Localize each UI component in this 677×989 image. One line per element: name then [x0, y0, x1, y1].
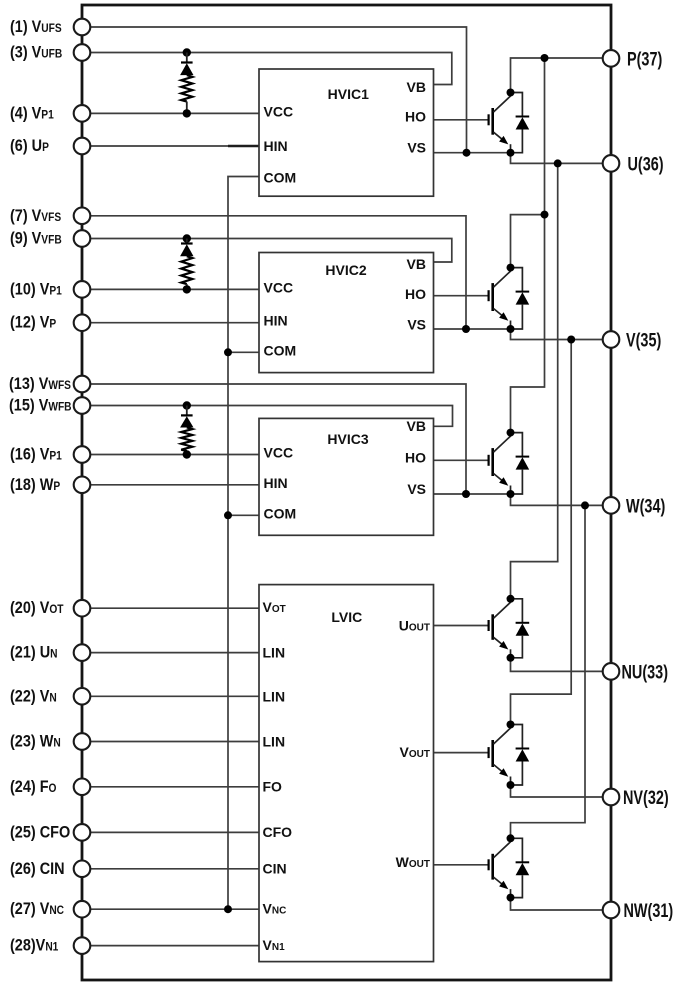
svg-text:HVIC2: HVIC2 [325, 262, 366, 278]
svg-text:HO: HO [405, 286, 426, 302]
wire Q3 emitter to pin W(34) [511, 494, 603, 505]
wire net VP pin 12 to HVIC2 HIN [90, 322, 259, 324]
wire net VVFS pin 7 to V-phase VS node [90, 216, 466, 329]
junction COM bus / VNC net [224, 905, 232, 913]
node dot on lower net (DW/RW W-phase) [183, 450, 191, 458]
wire net VUFS from pin 1 to U-phase VS node [90, 27, 466, 153]
pin 35 V(35) terminal circle [603, 331, 620, 348]
svg-text:NU(33): NU(33) [622, 662, 669, 683]
svg-text:(18) WP: (18) WP [10, 476, 61, 494]
junction U line / U bus [554, 159, 562, 167]
svg-text:CFO: CFO [263, 824, 293, 840]
pin 15 VWFB terminal circle [74, 397, 91, 414]
wire net VP1 pin 4 to HVIC1 VCC [90, 112, 259, 114]
svg-text:LIN: LIN [263, 734, 286, 750]
pin 24 FO terminal circle [74, 779, 91, 796]
pin 3 VUFB terminal circle [74, 44, 91, 61]
pin 27 VNC terminal circle [74, 901, 91, 918]
svg-text:HIN: HIN [264, 475, 288, 491]
emitter node dot of Q1 (U high-side) [507, 149, 515, 157]
pin 26 CIN terminal circle [74, 861, 91, 878]
wire net CIN pin 26 to LVIC [90, 868, 259, 870]
wire net VP1 pin 10 to HVIC2 VCC [90, 288, 259, 290]
wire Q5 emitter to pin NV(32) [511, 785, 603, 797]
pin 6 UP terminal circle [74, 138, 91, 155]
pin 13 VWFS terminal circle [74, 376, 91, 393]
freewheel diode of Q6 (W low-side) [511, 838, 530, 897]
pin 10 VP1 terminal circle [74, 281, 91, 298]
emitter node dot of Q2 (V high-side) [507, 325, 515, 333]
transistor Q6 (W low-side) IGBT [489, 842, 511, 898]
svg-text:VS: VS [407, 316, 426, 332]
pin 23 WN terminal circle [74, 733, 91, 750]
wire net VWFB pin 15 to HVIC3 VB [90, 406, 452, 427]
pin 37 P(37) terminal circle [603, 50, 620, 67]
wire net WN pin 23 to LVIC LIN [90, 741, 259, 743]
svg-text:VB: VB [407, 418, 426, 434]
pin 16 VP1 terminal circle [74, 446, 91, 463]
wire net VP1 pin 16 to HVIC3 VCC [90, 454, 259, 456]
IC HVIC3 box [259, 418, 434, 535]
transistor Q1 (U high-side) IGBT [489, 96, 511, 153]
svg-text:(25) CFO: (25) CFO [10, 823, 70, 841]
pin 12 VP terminal circle [74, 314, 91, 331]
wire net VNC pin 27 to LVIC [90, 908, 259, 910]
collector node dot of Q3 (W high-side) [507, 429, 515, 437]
pin 31 NW(31) terminal circle [603, 902, 620, 919]
svg-text:VB: VB [407, 79, 426, 95]
svg-text:(26) CIN: (26) CIN [10, 860, 65, 878]
svg-text:P(37): P(37) [627, 49, 662, 70]
wire P line to pin P(37) and Q1 collector [511, 58, 603, 93]
wire net VUFB from pin 3 to HVIC1 VB [90, 53, 452, 85]
freewheel diode of Q5 (V low-side) [511, 725, 530, 786]
junction P line / P bus [541, 54, 549, 62]
svg-text:COM: COM [264, 505, 297, 521]
svg-text:FO: FO [263, 778, 283, 794]
svg-text:HIN: HIN [264, 313, 288, 329]
node dot on upper net (DW/RW W-phase) [183, 401, 191, 409]
junction VUFS / U emitter line [463, 149, 471, 157]
pin 22 VN terminal circle [74, 688, 91, 705]
pin 34 W(34) terminal circle [603, 497, 620, 514]
collector node dot of Q6 (W low-side) [507, 834, 515, 842]
wire Q6 emitter to pin NW(31) [511, 898, 603, 910]
node dot on upper net (DV/RV V-phase) [183, 234, 191, 242]
pin 20 VOT terminal circle [74, 600, 91, 617]
wire P bus down to Q3 collector [511, 58, 545, 433]
wire net VN pin 22 to LVIC LIN [90, 695, 259, 697]
svg-text:(23) WN: (23) WN [10, 732, 61, 750]
collector node dot of Q5 (V low-side) [507, 721, 515, 729]
pin 4 VP1 terminal circle [74, 105, 91, 122]
junction V line / V bus [567, 336, 575, 344]
transistor Q4 (U low-side) IGBT [489, 602, 511, 658]
bootstrap resistor DU/RU U-phase [181, 75, 192, 101]
wire net UP pin 6 to HVIC1 HIN [90, 145, 259, 147]
junction COM bus / HVIC2 COM [224, 348, 232, 356]
svg-text:V(35): V(35) [626, 330, 661, 351]
pin 9 VVFB terminal circle [74, 230, 91, 247]
svg-text:LVIC: LVIC [331, 609, 362, 625]
bootstrap diode DW/RW W-phase [180, 406, 193, 428]
svg-text:NV(32): NV(32) [623, 787, 669, 808]
wire Q2 emitter to pin V(35) [511, 329, 603, 340]
pin 28 VN1 terminal circle [74, 937, 91, 954]
freewheel diode of Q1 (U high-side) [511, 93, 530, 153]
wire P bus branch to Q2 collector [511, 215, 545, 268]
IC HVIC2 box [259, 253, 434, 373]
svg-text:VCC: VCC [264, 104, 294, 120]
emitter node dot of Q4 (U low-side) [507, 654, 515, 662]
collector node dot of Q1 (U high-side) [507, 89, 515, 97]
pin 18 WP terminal circle [74, 477, 91, 494]
wire V bus from V(35) to Q5 collector [511, 340, 572, 725]
wire HVIC1 HO to IGBT Q1 gate [434, 119, 489, 121]
pin 32 NV(32) terminal circle [603, 789, 620, 806]
svg-text:COM: COM [264, 170, 297, 186]
transistor Q5 (V low-side) IGBT [489, 728, 511, 785]
wire W bus from W(34) to Q6 collector [511, 505, 586, 838]
svg-text:HO: HO [405, 450, 426, 466]
pin 33 NU(33) terminal circle [603, 663, 620, 680]
svg-text:HIN: HIN [264, 138, 288, 154]
wire net VVFB pin 9 to HVIC2 VB [90, 239, 452, 263]
pin 25 CFO terminal circle [74, 824, 91, 841]
svg-text:W(34): W(34) [626, 496, 665, 517]
wire net WP pin 18 to HVIC3 HIN [90, 484, 259, 486]
svg-text:COM: COM [264, 342, 297, 358]
node dot on upper net (DU/RU U-phase) [183, 48, 191, 56]
module outline border [82, 5, 611, 980]
wire net VWFS pin 13 to W-phase VS node [90, 384, 466, 494]
wire HVIC2 HO to IGBT Q2 gate [434, 295, 489, 297]
collector node dot of Q4 (U low-side) [507, 595, 515, 603]
wire net VN1 pin 28 to LVIC [90, 945, 259, 947]
wire HVIC2 VS to Q2 emitter [434, 328, 511, 330]
wire LVIC VOUT to IGBT Q5 gate [434, 752, 489, 754]
IC LVIC box [259, 585, 434, 962]
bootstrap resistor DV/RV V-phase [181, 256, 192, 284]
svg-text:VCC: VCC [264, 445, 294, 461]
junction W line / W bus [581, 501, 589, 509]
collector node dot of Q2 (V high-side) [507, 264, 515, 272]
svg-text:VB: VB [407, 256, 426, 272]
wire Q4 emitter to pin NU(33) [511, 658, 603, 672]
freewheel diode of Q3 (W high-side) [511, 433, 530, 494]
wire HVIC3 HO to IGBT Q3 gate [434, 459, 489, 461]
wire U bus from U(36) to Q4 collector [511, 163, 558, 598]
junction VVFS / V emitter line [462, 325, 470, 333]
svg-text:NW(31): NW(31) [624, 900, 674, 921]
transistor Q2 (V high-side) IGBT [489, 271, 511, 329]
wire COM bus from HVIC1 COM down to VNC net [228, 177, 259, 910]
wire HVIC3 VS to Q3 emitter [434, 493, 511, 495]
wire Q1 emitter to pin U(36) [511, 153, 603, 164]
svg-text:HO: HO [405, 109, 426, 125]
emitter node dot of Q6 (W low-side) [507, 894, 515, 902]
emitter node dot of Q5 (V low-side) [507, 781, 515, 789]
junction VWFS / W emitter line [462, 490, 470, 498]
freewheel diode of Q4 (U low-side) [511, 599, 530, 658]
wire segment UP thicker stub at HVIC1 HIN [228, 145, 259, 147]
bootstrap diode DV/RV V-phase [180, 239, 193, 257]
svg-text:VCC: VCC [264, 279, 294, 295]
pin 1 VUFS terminal circle [74, 19, 91, 36]
wire net VOT pin 20 to LVIC [90, 607, 259, 609]
svg-text:CIN: CIN [263, 860, 287, 876]
svg-text:U(36): U(36) [628, 154, 664, 175]
pin 7 VVFS terminal circle [74, 208, 91, 225]
wire HVIC2 COM to COM bus [228, 351, 259, 353]
wire net FO pin 24 to LVIC [90, 786, 259, 788]
wire LVIC WOUT to IGBT Q6 gate [434, 864, 489, 866]
svg-text:LIN: LIN [263, 645, 286, 661]
svg-text:VS: VS [407, 140, 426, 156]
node dot on lower net (DU/RU U-phase) [183, 109, 191, 117]
transistor Q3 (W high-side) IGBT [489, 436, 511, 494]
junction COM bus / HVIC3 COM [224, 511, 232, 519]
wire HVIC3 COM to COM bus [228, 514, 259, 516]
pin 36 U(36) terminal circle [603, 155, 620, 172]
bootstrap diode DU/RU U-phase [180, 53, 193, 76]
bootstrap resistor DW/RW W-phase [181, 428, 192, 452]
svg-text:VS: VS [407, 481, 426, 497]
wire HVIC1 VS to Q1 emitter [434, 152, 511, 154]
emitter node dot of Q3 (W high-side) [507, 490, 515, 498]
wire net UN pin 21 to LVIC LIN [90, 652, 259, 654]
svg-text:HVIC3: HVIC3 [327, 431, 368, 447]
pin 21 UN terminal circle [74, 644, 91, 661]
wire LVIC UOUT to IGBT Q4 gate [434, 625, 489, 627]
IC HVIC1 box [259, 69, 434, 196]
node dot on lower net (DV/RV V-phase) [183, 285, 191, 293]
wire net CFO pin 25 to LVIC [90, 831, 259, 833]
svg-text:HVIC1: HVIC1 [328, 86, 369, 102]
junction P bus / V branch [541, 211, 549, 219]
freewheel diode of Q2 (V high-side) [511, 268, 530, 329]
svg-text:LIN: LIN [263, 688, 286, 704]
